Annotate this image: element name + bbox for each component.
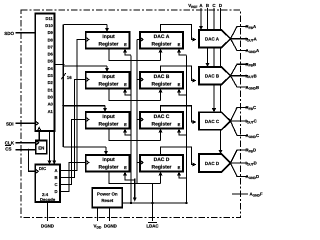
svg-text:DGND: DGND: [104, 224, 117, 229]
shift register clock pin: [37, 128, 41, 131]
DAC register B: [140, 72, 183, 89]
wire input reg B enable: [123, 89, 127, 93]
svg-text:AGNDC: AGNDC: [246, 133, 260, 139]
svg-text:E: E: [124, 42, 127, 47]
wire bus branch C: [63, 105, 105, 107]
svg-text:DGND: DGND: [41, 224, 54, 229]
wire DAC reg C clock tap: [137, 119, 140, 121]
svg-text:IOUTD: IOUTD: [246, 161, 257, 167]
pin RFBA: [231, 27, 249, 39]
wire input reg C enable: [123, 129, 127, 133]
svg-text:DAC D: DAC D: [154, 157, 170, 163]
svg-text:DAC C: DAC C: [154, 114, 170, 120]
svg-text:Decode: Decode: [40, 197, 56, 202]
input reg enable riser: [130, 56, 132, 204]
wire input reg B to DAC reg B: [109, 89, 161, 101]
svg-text:D1: D1: [48, 87, 54, 92]
svg-text:Register: Register: [98, 164, 118, 170]
pin DGND2: [108, 208, 110, 222]
power-on reset block: [92, 188, 122, 208]
wire DAC reg A out to DAC A: [161, 25, 194, 40]
pin RFBD: [231, 150, 249, 163]
svg-text:Input: Input: [102, 157, 115, 163]
wire bus branch A: [63, 24, 107, 26]
svg-text:AGNDB: AGNDB: [246, 85, 260, 91]
input register B: [86, 72, 130, 89]
svg-text:AGNDA: AGNDA: [246, 48, 260, 54]
wire input reg D to DAC reg D: [109, 172, 161, 184]
wire select D: [60, 163, 86, 192]
wire VREFD: [220, 8, 222, 151]
boundary dash-dot border: [21, 10, 241, 218]
DAC D: [199, 154, 231, 172]
svg-text:CLK: CLK: [5, 141, 15, 146]
svg-text:D11: D11: [46, 16, 54, 21]
svg-text:C: C: [54, 182, 57, 187]
wire DAC reg C load: [177, 129, 181, 133]
svg-text:Input: Input: [102, 114, 115, 120]
svg-text:B: B: [206, 3, 209, 8]
svg-text:Input: Input: [102, 34, 115, 40]
svg-text:16: 16: [67, 75, 72, 80]
svg-text:D6: D6: [48, 52, 54, 57]
svg-text:DAC D: DAC D: [205, 161, 220, 166]
DAC reg clock riser: [137, 40, 153, 184]
DAC register A: [140, 32, 183, 49]
decoder 2:4: [35, 165, 60, 203]
svg-text:DAC C: DAC C: [205, 119, 220, 124]
pin RFBC: [231, 108, 249, 122]
svg-text:DAC B: DAC B: [154, 74, 170, 80]
input register C: [86, 112, 130, 129]
svg-text:D2: D2: [48, 80, 54, 85]
wire DAC reg D out to DAC D: [161, 147, 194, 165]
svg-text:IOUTA: IOUTA: [246, 36, 257, 42]
wire POR to load line: [122, 202, 186, 204]
pin SDO: [16, 32, 36, 34]
svg-text:A: A: [54, 168, 57, 173]
svg-text:D9: D9: [48, 30, 54, 35]
svg-text:A0: A0: [48, 102, 54, 107]
svg-text:LDAC: LDAC: [146, 224, 159, 229]
pin SDIN: [16, 122, 36, 124]
enable gate EN: [36, 141, 47, 154]
row D enable drop: [134, 179, 136, 198]
svg-text:D/C: D/C: [39, 166, 46, 171]
svg-text:A1: A1: [48, 109, 54, 114]
svg-text:E: E: [178, 42, 181, 47]
svg-text:Register: Register: [98, 81, 118, 87]
wire CS junction: [28, 149, 30, 151]
svg-text:D5: D5: [48, 59, 54, 64]
wire DAC reg A load: [177, 49, 181, 53]
input register D: [86, 155, 130, 172]
wire DAC reg B load: [177, 89, 181, 93]
pin IOUTA: [231, 38, 249, 40]
svg-text:Register: Register: [98, 121, 118, 127]
pin IOUTD: [231, 162, 249, 164]
svg-text:CS: CS: [5, 147, 11, 152]
svg-text:RFBB: RFBB: [246, 62, 257, 68]
pin RFBB: [231, 64, 249, 76]
pin AGNDD: [231, 163, 249, 177]
DAC B: [199, 67, 231, 85]
DAC register C: [140, 112, 183, 129]
svg-text:D7: D7: [48, 44, 54, 49]
wire input reg C to DAC reg C: [109, 129, 161, 141]
pin IOUTC: [231, 120, 249, 122]
DAC A: [199, 30, 231, 48]
wire bus branch B: [63, 65, 107, 67]
svg-text:B: B: [54, 175, 57, 180]
svg-text:RFBD: RFBD: [246, 148, 257, 154]
svg-text:RFBA: RFBA: [246, 24, 257, 30]
pin LDAC: [152, 203, 154, 221]
svg-text:Input: Input: [102, 74, 115, 80]
wire DAC reg A clock tap: [137, 39, 140, 41]
svg-text:D3: D3: [48, 73, 54, 78]
svg-text:VDD: VDD: [93, 224, 101, 230]
wire select C: [60, 120, 86, 185]
svg-text:DAC A: DAC A: [205, 37, 220, 42]
svg-text:RFBC: RFBC: [246, 105, 257, 111]
svg-text:E: E: [124, 122, 127, 127]
wire SR data out: [55, 64, 64, 66]
wire select B: [60, 80, 86, 178]
bus width slash 16: [61, 73, 65, 79]
svg-text:D: D: [54, 189, 57, 194]
svg-text:Register: Register: [151, 121, 171, 127]
input register A: [86, 32, 130, 49]
svg-text:AGNDD: AGNDD: [246, 174, 260, 180]
pin AGNDB: [231, 76, 249, 87]
svg-text:IOUTB: IOUTB: [246, 73, 257, 79]
pin VDD: [96, 208, 98, 222]
wire VREFB: [207, 8, 209, 64]
wire DAC reg C out to DAC C: [161, 106, 194, 122]
svg-text:DAC B: DAC B: [205, 74, 220, 79]
shift register SDI clock mark: [35, 121, 38, 125]
decoder clock mark: [35, 169, 38, 173]
wire VREFA: [200, 8, 202, 27]
svg-text:SDO: SDO: [4, 31, 14, 36]
DAC register D: [140, 155, 183, 172]
svg-text:D10: D10: [45, 23, 53, 28]
wire DAC reg D clock tap: [137, 162, 140, 164]
bus riser: [62, 25, 64, 148]
svg-text:Reset: Reset: [101, 198, 113, 203]
pin DGND: [47, 202, 49, 221]
wire VREFC: [213, 8, 215, 109]
svg-text:E: E: [124, 82, 127, 87]
wire A1 to decoder: [53, 131, 55, 161]
wire DAC reg B out to DAC B: [161, 66, 194, 81]
svg-text:D: D: [219, 3, 222, 8]
wire EN to SR clock: [38, 131, 40, 141]
wire DAC reg B clock tap: [137, 79, 140, 81]
shift register U1: [35, 14, 54, 132]
svg-text:AGNDF: AGNDF: [250, 192, 263, 198]
svg-text:Register: Register: [98, 41, 118, 47]
svg-text:Register: Register: [151, 41, 171, 47]
pin IOUTB: [231, 75, 249, 77]
svg-text:SDI: SDI: [6, 122, 14, 127]
svg-text:IOUTC: IOUTC: [246, 119, 257, 125]
pin AGNDC: [231, 121, 249, 135]
svg-text:D0: D0: [48, 94, 54, 99]
svg-text:VREF: VREF: [188, 3, 197, 9]
wire bus branch D: [63, 146, 106, 148]
pin AGNDA: [231, 39, 249, 51]
wire select A: [60, 40, 86, 171]
wire input reg D enable: [123, 172, 127, 176]
wire DAC reg D load: [177, 172, 181, 176]
svg-text:Register: Register: [151, 81, 171, 87]
svg-text:D4: D4: [48, 66, 54, 71]
wire input reg A to DAC reg A: [109, 49, 161, 61]
svg-text:Register: Register: [151, 164, 171, 170]
svg-text:Power On: Power On: [97, 191, 118, 196]
pin CS: [16, 149, 36, 151]
svg-text:DAC A: DAC A: [154, 34, 170, 40]
svg-text:E: E: [124, 165, 127, 170]
pin AGND common: [232, 193, 248, 195]
wire A0 to decoder: [49, 131, 51, 161]
svg-text:E: E: [178, 82, 181, 87]
wire input reg A enable: [123, 49, 127, 53]
pin CLK: [16, 142, 36, 144]
svg-text:EN: EN: [38, 146, 44, 151]
svg-text:E: E: [178, 165, 181, 170]
DAC reg load riser: [186, 56, 188, 204]
DAC C: [199, 112, 231, 130]
svg-text:D8: D8: [48, 37, 54, 42]
svg-text:E: E: [178, 122, 181, 127]
